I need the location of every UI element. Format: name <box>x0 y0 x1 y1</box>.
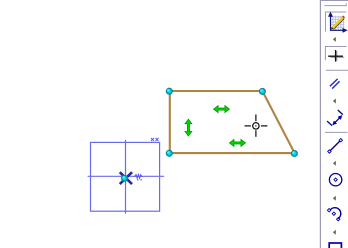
green horizontal arrow bottom <box>229 139 245 146</box>
icon grid-edit axes <box>329 13 346 32</box>
toolbar left separator <box>319 0 321 248</box>
center X mark <box>121 173 131 183</box>
crosshair cursor <box>245 115 268 137</box>
vertex handle top-right <box>260 89 266 95</box>
grid vertical center line <box>125 140 127 214</box>
icon add-point cross <box>331 51 345 61</box>
vertex handle top-left <box>166 88 172 94</box>
icon parallel lines <box>330 79 340 89</box>
trapezoid outline <box>170 91 295 153</box>
vertex handle bottom-right <box>292 151 298 157</box>
toolbar separator 1 <box>326 69 348 71</box>
dropdown triangle 1 <box>333 37 336 42</box>
green vertical arrow <box>185 119 192 136</box>
green horizontal arrow top <box>214 106 230 113</box>
icon arc tool <box>327 208 340 221</box>
vertex handle bottom-left <box>166 150 172 156</box>
squiggle mark on center line <box>134 175 143 178</box>
icon circle tool <box>329 174 341 186</box>
grid center handle <box>122 175 128 181</box>
icon line tool <box>328 139 343 154</box>
toolbar top border <box>320 0 348 2</box>
dropdown triangle 3 <box>333 161 336 166</box>
button frame grid-edit <box>326 12 347 32</box>
icon measure-distance <box>327 110 343 126</box>
dropdown triangle 2 <box>333 99 336 104</box>
dropdown triangle 5 <box>333 230 336 235</box>
button frame add-point <box>325 47 346 61</box>
toolbar separator 2 <box>325 131 348 133</box>
xx mark grid corner <box>151 138 159 141</box>
icon rectangle tool <box>329 243 341 248</box>
grid square <box>91 142 160 211</box>
dropdown triangle 4 <box>333 196 336 201</box>
grid horizontal center line <box>88 175 165 177</box>
toolbar top button bottom edge <box>324 3 346 5</box>
icon grid-edit pencil <box>333 18 344 29</box>
